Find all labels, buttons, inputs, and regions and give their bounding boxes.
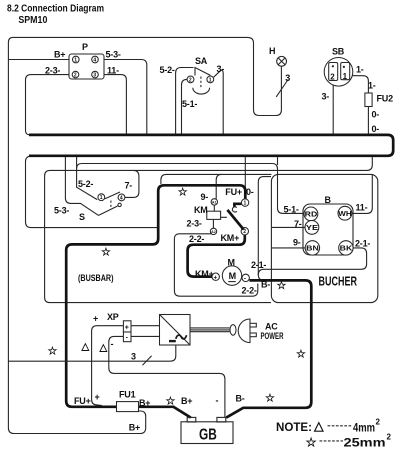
- svg-text:XP: XP: [107, 312, 119, 322]
- wire 3-core run y=360.8: [8, 345, 175, 361]
- svg-text:-: -: [111, 339, 114, 349]
- svg-text:1: 1: [100, 195, 103, 201]
- wire 5-1- riser stub to bus: [277, 157, 279, 165]
- svg-text:FU1: FU1: [119, 390, 136, 400]
- svg-text:M: M: [228, 258, 235, 268]
- svg-text:1-: 1-: [356, 65, 364, 75]
- motor loop 2-2- from KM coil A2: [174, 234, 257, 296]
- svg-text:2: 2: [189, 77, 192, 83]
- svg-text:-: -: [216, 396, 219, 406]
- svg-text:4mm: 4mm: [353, 421, 375, 435]
- svg-text:9-: 9-: [201, 192, 209, 202]
- svg-text:1: 1: [209, 77, 212, 83]
- svg-text:☆: ☆: [101, 247, 111, 259]
- AC power plug: [190, 319, 256, 343]
- wire S box left edge and bottom (2-3- branch): [26, 156, 158, 227]
- svg-text:P: P: [82, 42, 88, 52]
- wire XP plus: from XP+ box to FU1 node: [92, 326, 124, 406]
- svg-text:2: 2: [74, 73, 77, 79]
- svg-text:☆: ☆: [48, 346, 58, 358]
- BUCHER enclosure box: [271, 174, 377, 302]
- svg-text:1-: 1-: [368, 81, 376, 91]
- wire 5-1- from SA pin 2 down to bus: [182, 79, 187, 134]
- wire 3- from SA pin 1 down to bus: [214, 70, 224, 134]
- svg-text:☆: ☆: [265, 393, 275, 405]
- svg-text:B+: B+: [139, 398, 150, 408]
- svg-text:B+: B+: [54, 50, 65, 60]
- svg-text:BUCHER: BUCHER: [319, 274, 358, 289]
- key switch SA: [187, 68, 214, 95]
- svg-text:0-: 0-: [372, 124, 380, 134]
- fuse FU2: [365, 93, 372, 107]
- svg-text:25mm: 25mm: [344, 436, 386, 450]
- svg-text:3-: 3-: [322, 92, 330, 102]
- svg-text:-: -: [244, 275, 246, 282]
- svg-text:FU2: FU2: [377, 94, 394, 104]
- svg-text:0-: 0-: [246, 187, 254, 197]
- wire 9- to BN: [271, 247, 306, 249]
- svg-text:2-3-: 2-3-: [45, 66, 60, 76]
- svg-text:☆: ☆: [296, 349, 306, 361]
- svg-text:2-3-: 2-3-: [187, 218, 202, 228]
- svg-text:B+: B+: [181, 396, 192, 406]
- svg-text:☆: ☆: [277, 280, 287, 292]
- svg-text:2-2-: 2-2-: [242, 285, 257, 295]
- wire 0- below FU2: [367, 107, 369, 135]
- svg-text:A1: A1: [212, 201, 217, 205]
- svg-text:WH: WH: [338, 209, 351, 218]
- wire 5-3- from P pin 4 down to bus: [104, 60, 147, 135]
- svg-text:2: 2: [376, 418, 381, 427]
- thick cable KM pin2 to motor plus KM+: [188, 235, 245, 277]
- thick B+ cable: KM contact pin1 up-left, down left side to FU1 and battery: [66, 185, 245, 417]
- svg-text:1: 1: [244, 201, 247, 207]
- connector P: [69, 54, 104, 79]
- svg-text:BN: BN: [306, 244, 319, 253]
- svg-text:2-2-: 2-2-: [189, 234, 204, 244]
- svg-text:+: +: [125, 324, 129, 331]
- svg-text:11-: 11-: [356, 203, 368, 213]
- svg-text:4: 4: [120, 195, 123, 201]
- svg-text:2-1-: 2-1-: [251, 260, 266, 270]
- wire L2 7- run (y=170.4) with left drop to BUSBAR bottom line y=302.6: [45, 157, 373, 303]
- wire 7- to YE: [271, 226, 305, 228]
- wire BUCHER box top extension (y=174) to thick junction: [161, 174, 272, 184]
- wire XP minus: from XP- box down right to battery minus tab: [109, 336, 225, 417]
- svg-text:3: 3: [131, 352, 136, 362]
- wire FU+ 0- riser from bus to KM contact pin 1: [244, 157, 246, 199]
- lamp H: [276, 56, 288, 97]
- svg-text:(BUSBAR): (BUSBAR): [78, 273, 114, 284]
- pushbutton SB: [324, 58, 353, 87]
- svg-text:2: 2: [330, 72, 335, 81]
- svg-text:+: +: [95, 392, 100, 402]
- wire 3- from SB button 2 down to bus: [332, 81, 334, 135]
- svg-text:5-3-: 5-3-: [54, 206, 69, 216]
- svg-text:9-: 9-: [293, 238, 301, 248]
- switch S pins and levers: [98, 192, 125, 215]
- wire 2-1- vertical with top corner: [258, 177, 271, 280]
- svg-text:FU+: FU+: [74, 396, 91, 406]
- svg-text:SPM10: SPM10: [18, 15, 47, 26]
- svg-text:△: △: [99, 343, 108, 354]
- svg-text:5-2-: 5-2-: [160, 65, 175, 75]
- svg-text:B: B: [325, 195, 332, 205]
- svg-text:☆: ☆: [306, 436, 318, 450]
- wire XP minus to charger: [131, 335, 160, 337]
- wire B+ to connector P pin 1: [8, 59, 69, 61]
- svg-text:KM: KM: [194, 205, 208, 215]
- cable slash marker 3: [143, 356, 152, 366]
- contactor KM coil: [207, 199, 227, 235]
- svg-text:S: S: [79, 212, 85, 222]
- svg-text:1: 1: [74, 57, 77, 63]
- svg-text:4: 4: [93, 57, 96, 63]
- svg-text:AC: AC: [265, 322, 278, 332]
- svg-text:☆: ☆: [178, 187, 188, 199]
- svg-text:3-: 3-: [217, 64, 225, 74]
- svg-text:△: △: [81, 342, 90, 353]
- svg-text:5-2-: 5-2-: [78, 179, 93, 189]
- wire L1 5-1- run (y=163.5) from S 5-2- riser to RD: [77, 164, 304, 214]
- plug XP: [123, 321, 131, 342]
- svg-text:BK: BK: [340, 244, 353, 253]
- wire 1- from SB button 1 to fuse FU2 and 0- down to bus: [350, 76, 369, 93]
- svg-text:5-1-: 5-1-: [284, 205, 299, 215]
- svg-text:☆: ☆: [166, 396, 176, 408]
- svg-text:1: 1: [343, 72, 348, 81]
- svg-text:H: H: [269, 46, 275, 56]
- svg-text:7-: 7-: [294, 219, 302, 229]
- svg-text:5-3-: 5-3-: [106, 50, 121, 60]
- svg-text:3: 3: [93, 73, 96, 79]
- wire 9- branch from y=174 run down to KM coil A1: [216, 174, 221, 198]
- svg-text:+: +: [93, 314, 98, 324]
- svg-text:SB: SB: [332, 47, 345, 57]
- svg-text:7-: 7-: [125, 181, 133, 191]
- svg-text:5-1-: 5-1-: [182, 99, 197, 109]
- wire 2-3- from P pin 2 down to bus: [26, 75, 70, 135]
- svg-text:8.2 Connection Diagram: 8.2 Connection Diagram: [7, 4, 104, 15]
- fuse FU1: [117, 402, 139, 412]
- battery GB: [181, 417, 233, 443]
- wire 5-2- from bus to switch S pin 1: [77, 157, 98, 200]
- svg-text:B+: B+: [129, 423, 140, 433]
- wire 5-2- to SA pin 2 lever: [176, 68, 194, 135]
- svg-text:POWER: POWER: [261, 331, 284, 341]
- svg-text:A2: A2: [211, 230, 216, 234]
- svg-text:2: 2: [243, 229, 246, 235]
- svg-text:M: M: [229, 271, 237, 281]
- svg-text:B-: B-: [236, 394, 245, 404]
- contactor KM main contact: [227, 199, 248, 235]
- thick bus 25mm (y=135 and y=156 with right U-turn): [29, 135, 393, 156]
- svg-text:KM+: KM+: [221, 233, 240, 243]
- svg-text:KM+: KM+: [195, 269, 214, 279]
- thick cable B-: motor minus right, down right side to battery minus: [226, 280, 311, 417]
- svg-text:3: 3: [285, 73, 290, 83]
- svg-text:2-1-: 2-1-: [355, 239, 370, 249]
- svg-text:RD: RD: [305, 210, 318, 219]
- connector B: [303, 204, 353, 255]
- svg-text:FU+: FU+: [225, 187, 242, 197]
- NOTE legend: [276, 418, 392, 450]
- wire outer B+ loop with lamp H feed (top edge y=37, left edge x=8, bottom edge y=433.5): [8, 37, 281, 433]
- wire 7- branch from L2 down to switch S pin 4: [125, 170, 139, 197]
- svg-text:0-: 0-: [372, 110, 380, 120]
- wire 11- from P pin 3 down to bus: [104, 75, 126, 135]
- motor M: [212, 266, 249, 285]
- svg-text:B-: B-: [261, 280, 270, 290]
- battery charger: [160, 315, 191, 346]
- svg-text:SA: SA: [195, 56, 208, 66]
- svg-text:△: △: [313, 419, 325, 433]
- svg-text:GB: GB: [199, 427, 217, 444]
- wire 11- riser from bus down to WH: [352, 174, 372, 213]
- svg-text:2: 2: [387, 433, 392, 442]
- svg-text:11-: 11-: [107, 66, 119, 76]
- svg-text:+: +: [214, 274, 218, 281]
- wire 5-3- from bus to switch S lower lever: [65, 157, 98, 215]
- wire XP plus to charger: [131, 325, 160, 327]
- svg-text:NOTE:: NOTE:: [276, 420, 312, 434]
- svg-text:YE: YE: [306, 223, 318, 232]
- wire 2-1- from BK loop: [258, 248, 366, 275]
